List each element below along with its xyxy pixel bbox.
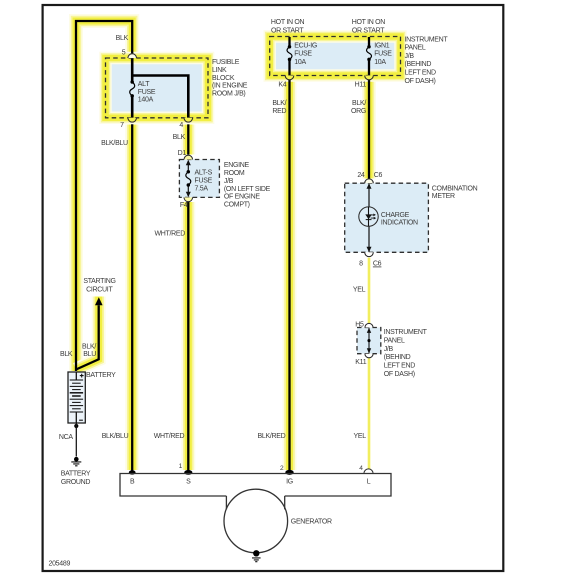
- svg-text:S: S: [186, 478, 191, 485]
- svg-text:BLK: BLK: [60, 351, 73, 358]
- svg-text:CIRCUIT: CIRCUIT: [86, 287, 113, 294]
- svg-text:205489: 205489: [49, 561, 71, 568]
- svg-text:L: L: [367, 478, 371, 485]
- svg-text:7.5A: 7.5A: [195, 186, 209, 193]
- svg-text:OF DASH): OF DASH): [405, 78, 436, 85]
- svg-text:NCA: NCA: [59, 434, 74, 441]
- svg-text:OR START: OR START: [271, 28, 304, 35]
- svg-text:INDICATION: INDICATION: [381, 220, 418, 227]
- svg-text:WHT/RED: WHT/RED: [154, 433, 185, 440]
- svg-text:BATTERY: BATTERY: [86, 372, 116, 379]
- svg-text:PANEL: PANEL: [384, 338, 405, 345]
- svg-text:ALT-S: ALT-S: [195, 170, 213, 177]
- svg-text:COMBINATION: COMBINATION: [432, 186, 478, 193]
- svg-text:BLK/BLU: BLK/BLU: [101, 140, 128, 147]
- svg-text:INSTRUMENT: INSTRUMENT: [384, 329, 428, 336]
- svg-text:10A: 10A: [294, 59, 306, 66]
- svg-text:(ON LEFT SIDE: (ON LEFT SIDE: [224, 186, 271, 193]
- svg-text:BLK/RED: BLK/RED: [258, 433, 286, 440]
- svg-text:FUSIBLE: FUSIBLE: [212, 59, 240, 66]
- svg-text:ENGINE: ENGINE: [224, 162, 250, 169]
- svg-text:IG: IG: [286, 478, 293, 485]
- svg-text:(IN ENGINE: (IN ENGINE: [212, 83, 248, 90]
- svg-text:OR START: OR START: [352, 28, 385, 35]
- svg-text:ORG: ORG: [351, 108, 366, 115]
- svg-text:ECU-IG: ECU-IG: [294, 43, 317, 50]
- svg-text:10A: 10A: [374, 59, 386, 66]
- svg-text:CHARGE: CHARGE: [381, 212, 410, 219]
- svg-text:F4: F4: [180, 202, 188, 209]
- svg-text:LINK: LINK: [212, 67, 227, 74]
- svg-text:LEFT END: LEFT END: [405, 70, 437, 77]
- svg-text:BLK/: BLK/: [352, 100, 366, 107]
- svg-text:(BEHIND: (BEHIND: [384, 354, 411, 361]
- svg-text:YEL: YEL: [353, 287, 366, 294]
- svg-text:BLK/: BLK/: [272, 100, 286, 107]
- svg-text:FUSE: FUSE: [294, 51, 312, 58]
- svg-text:FUSE: FUSE: [195, 178, 213, 185]
- svg-text:PANEL: PANEL: [405, 45, 426, 52]
- svg-text:24: 24: [357, 172, 365, 179]
- svg-text:J/B: J/B: [384, 346, 394, 353]
- svg-text:OF ENGINE: OF ENGINE: [224, 194, 260, 201]
- svg-text:K11: K11: [355, 359, 366, 366]
- svg-text:K4: K4: [278, 82, 286, 89]
- svg-text:BLK/BLU: BLK/BLU: [102, 433, 129, 440]
- svg-text:140A: 140A: [138, 97, 154, 104]
- svg-text:J/B: J/B: [224, 178, 234, 185]
- svg-text:BLK/: BLK/: [82, 343, 96, 350]
- svg-text:B: B: [130, 478, 135, 485]
- svg-text:5: 5: [122, 49, 126, 56]
- svg-text:D1: D1: [178, 150, 187, 157]
- svg-text:STARTING: STARTING: [83, 278, 115, 285]
- svg-text:BLOCK: BLOCK: [212, 75, 235, 82]
- svg-text:RED: RED: [272, 108, 286, 115]
- svg-text:IGN1: IGN1: [374, 43, 390, 50]
- svg-text:7: 7: [120, 122, 124, 129]
- svg-text:YEL: YEL: [354, 433, 367, 440]
- svg-text:FUSE: FUSE: [138, 89, 156, 96]
- svg-text:GROUND: GROUND: [61, 479, 91, 486]
- svg-text:8: 8: [359, 261, 363, 268]
- svg-text:H5: H5: [355, 322, 364, 329]
- svg-text:HOT IN ON: HOT IN ON: [271, 19, 305, 26]
- svg-text:COMPT): COMPT): [224, 202, 250, 209]
- svg-text:GENERATOR: GENERATOR: [291, 519, 332, 526]
- svg-text:4: 4: [179, 122, 183, 129]
- svg-text:ALT: ALT: [138, 81, 150, 88]
- svg-text:ROOM J/B): ROOM J/B): [212, 90, 245, 97]
- svg-text:H11: H11: [355, 82, 367, 89]
- svg-text:OF DASH): OF DASH): [384, 371, 415, 378]
- svg-text:HOT IN ON: HOT IN ON: [352, 19, 386, 26]
- svg-text:BLK: BLK: [173, 134, 186, 141]
- svg-text:BATTERY: BATTERY: [61, 471, 91, 478]
- svg-text:ROOM: ROOM: [224, 170, 245, 177]
- svg-text:INSTRUMENT: INSTRUMENT: [405, 36, 449, 43]
- svg-text:J/B: J/B: [405, 53, 415, 60]
- svg-text:FUSE: FUSE: [374, 51, 392, 58]
- svg-text:(BEHIND: (BEHIND: [405, 61, 432, 68]
- svg-text:METER: METER: [432, 193, 455, 200]
- svg-text:WHT/RED: WHT/RED: [154, 231, 185, 238]
- svg-text:BLK: BLK: [116, 35, 129, 42]
- svg-text:BLU: BLU: [83, 351, 96, 358]
- svg-text:C6: C6: [374, 172, 383, 179]
- svg-text:LEFT END: LEFT END: [384, 362, 416, 369]
